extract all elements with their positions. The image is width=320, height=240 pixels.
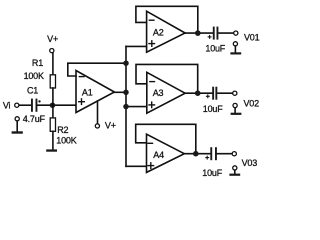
terminal V02 (233, 91, 237, 95)
wire C3 to V02 (218, 92, 233, 94)
op-amp A4 (147, 134, 185, 172)
wire A1 feedback (68, 63, 126, 76)
A3 plus sign (149, 102, 155, 108)
wire R2 to ground (52, 131, 54, 149)
A4 plus sign (148, 163, 154, 169)
svg-text:R2: R2 (57, 125, 68, 135)
capacitor C3 10uF (212, 87, 217, 100)
svg-text:10uF: 10uF (205, 43, 225, 53)
ground V03 (229, 166, 240, 176)
wire C1 to A1 + input (37, 104, 76, 106)
svg-text:A2: A2 (153, 27, 164, 37)
C3 plus mark (206, 95, 209, 98)
svg-text:C1: C1 (27, 86, 38, 96)
A2 plus sign (149, 41, 155, 47)
svg-text:10uF: 10uF (202, 168, 222, 178)
wire A1 V+ pin (97, 101, 99, 124)
A2 minus sign (149, 19, 154, 21)
wire V+ to R1 (52, 53, 54, 75)
wire bus vertical (125, 46, 127, 166)
svg-text:A3: A3 (153, 88, 164, 98)
wire bus to A2 + input (126, 45, 146, 47)
svg-text:4.7uF: 4.7uF (23, 114, 46, 124)
ground V02 (231, 103, 242, 114)
C2 plus mark (208, 36, 211, 39)
wire C2 to V01 (219, 32, 234, 34)
svg-text:Vi: Vi (3, 101, 11, 111)
wire bus to A4 + input (126, 165, 146, 167)
wire A4 output (184, 153, 210, 155)
node A1 feedback on bus (123, 60, 129, 65)
capacitor C2 10uF (213, 27, 219, 40)
capacitor C1 (31, 99, 41, 112)
node A3 input on bus (123, 104, 129, 110)
svg-text:100K: 100K (56, 136, 76, 146)
wire A3 output (185, 92, 212, 94)
node A2 output (195, 30, 201, 36)
terminal V+ top (50, 49, 54, 53)
wire Vi to C1 (19, 104, 31, 106)
wire A2 output (185, 32, 213, 34)
A3 minus sign (150, 81, 155, 83)
wire bus to A3 + input (126, 106, 147, 108)
wire C4 to V03 (217, 153, 232, 155)
wire node to R2 (52, 105, 54, 118)
resistor R2 (50, 118, 55, 131)
node input junction (50, 102, 56, 108)
svg-text:R1: R1 (32, 58, 43, 68)
resistor R1 (50, 75, 55, 88)
A4 minus sign (148, 142, 153, 144)
terminal V03 (232, 152, 236, 156)
capacitor C4 10uF (210, 147, 217, 160)
node A1 output on bus (123, 90, 129, 96)
svg-text:V+: V+ (47, 34, 58, 44)
terminal V01 (234, 31, 238, 35)
svg-text:A1: A1 (82, 87, 93, 97)
node A4 output (193, 151, 199, 157)
wire A2 feedback (136, 6, 198, 33)
svg-text:V+: V+ (105, 121, 116, 131)
wire A3 feedback (136, 64, 198, 93)
terminal Vi (15, 103, 19, 107)
svg-text:10uF: 10uF (203, 104, 223, 114)
wire A1 output (114, 91, 126, 93)
A1 plus sign (79, 99, 85, 105)
wire A4 feedback (136, 124, 196, 153)
ground V01 (230, 42, 241, 55)
op-amp A3 (147, 72, 185, 113)
op-amp A1 (76, 71, 114, 113)
svg-text:100K: 100K (24, 71, 44, 81)
svg-text:V01: V01 (244, 32, 260, 42)
ground input (12, 117, 23, 134)
C4 plus mark (206, 156, 209, 159)
svg-text:A4: A4 (153, 150, 164, 160)
svg-text:V03: V03 (242, 158, 258, 168)
wire R1 to node (52, 88, 54, 105)
svg-text:V02: V02 (244, 99, 260, 109)
A1 minus sign (79, 76, 84, 78)
terminal V+ A1 (95, 124, 99, 128)
node A3 output (195, 90, 201, 96)
ground R2 (46, 149, 57, 151)
op-amp A2 (147, 11, 186, 52)
